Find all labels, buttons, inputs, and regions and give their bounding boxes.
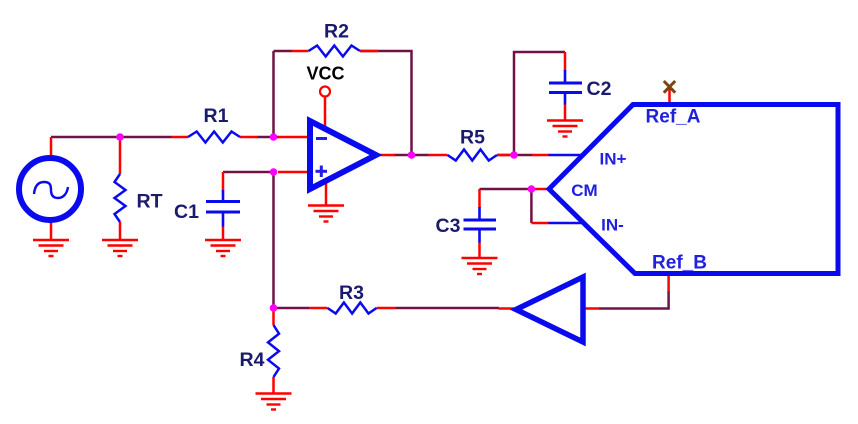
svg-text:Ref_B: Ref_B [652, 253, 707, 274]
svg-text:C3: C3 [436, 215, 461, 237]
svg-text:R5: R5 [460, 127, 485, 149]
svg-text:CM: CM [571, 181, 597, 200]
svg-text:R3: R3 [339, 282, 364, 304]
svg-text:R1: R1 [204, 105, 229, 127]
svg-text:C2: C2 [587, 78, 612, 100]
svg-text:C1: C1 [174, 201, 199, 223]
svg-text:R4: R4 [240, 349, 265, 371]
svg-text:IN+: IN+ [600, 150, 627, 169]
svg-text:RT: RT [137, 191, 163, 213]
svg-text:Ref_A: Ref_A [646, 107, 701, 128]
svg-text:IN-: IN- [601, 216, 624, 235]
svg-text:VCC: VCC [306, 64, 344, 84]
svg-text:R2: R2 [324, 21, 349, 43]
